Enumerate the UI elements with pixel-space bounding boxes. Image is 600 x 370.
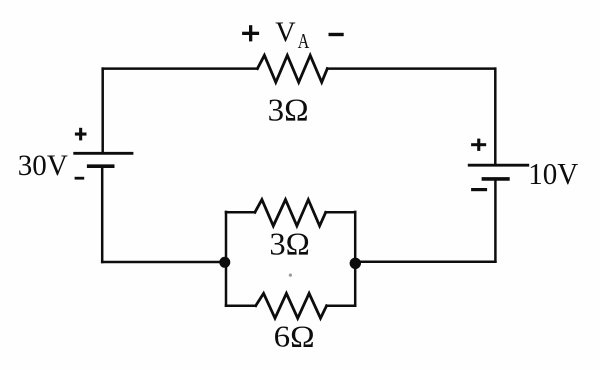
node junction dot right [350,258,361,269]
wire top-right segment [327,67,495,70]
svg-text:30V: 30V [18,149,68,182]
svg-text:10V: 10V [528,156,579,191]
svg-text:V: V [275,17,295,49]
wire parallel-box right vertical [354,212,357,306]
wire box top branch left [226,211,255,214]
wire box bottom branch left [226,304,256,307]
wire top-left segment [103,67,258,70]
resistor RA 3ohm top [257,55,327,82]
resistor R2 3ohm middle [255,200,326,226]
battery B1 30V long plate [75,152,132,155]
label + (battery B1 plus) [75,128,87,141]
wire right vertical upper [494,69,497,166]
battery B2 10V short plate [483,177,508,181]
wire bottom-right segment [355,260,495,263]
resistor R3 6ohm bottom [256,293,327,318]
label + (VA polarity plus) [242,25,259,41]
wire left vertical upper [101,69,104,154]
label + (battery B2 plus) [471,139,486,151]
label - (VA polarity minus) [329,33,344,36]
svg-text:3Ω: 3Ω [268,92,309,128]
svg-text:6Ω: 6Ω [274,318,315,353]
label - (battery B2 minus) [471,188,487,191]
wire bottom-left segment [102,261,225,264]
wire parallel-box left vertical [225,212,228,306]
node junction dot left [219,257,230,268]
wire right vertical lower [494,179,497,262]
label - (battery B1 minus) [75,177,85,180]
speck artifact [289,274,292,277]
wire left vertical lower [101,166,104,262]
wire box top branch right [326,211,356,214]
battery B1 30V short plate [89,164,113,168]
svg-text:A: A [298,29,310,53]
battery B2 10V long plate [469,164,528,167]
wire box bottom branch right [327,304,356,307]
svg-text:3Ω: 3Ω [269,226,310,262]
